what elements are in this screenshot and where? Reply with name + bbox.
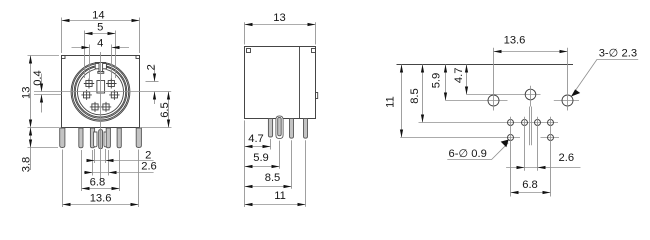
dim 2 right arrows [153,74,156,82]
board reference line [397,64,574,66]
side body bump [316,93,318,99]
pin P5 cross [84,79,94,89]
lower pin row line [400,137,559,139]
middle row reference line [34,94,62,96]
vertical center line [100,52,102,179]
dim 6.5 line [168,92,170,128]
dim 5 line [85,33,116,35]
dim 5.9 line [245,166,280,168]
shield leg right [136,128,141,148]
svg-text:8.5: 8.5 [265,172,281,184]
shield ring 2 [72,64,128,120]
dim 11 line [245,204,306,206]
mounting hole right axis [567,48,569,111]
svg-text:5: 5 [97,21,103,33]
shield ring 4 [75,67,125,117]
mounting hole middle axis [530,86,532,107]
dim 3.8 arrows [29,128,32,136]
svg-text:6.8: 6.8 [522,179,538,191]
dim 4 arrows [82,46,90,49]
dim 11 arrows [245,203,253,206]
dim 13 line [30,56,32,128]
pin hole c2 [522,120,528,126]
dim 6.8 arrows [82,187,90,190]
dim 6.8 pcb arrows [511,191,519,194]
key notch channel [99,69,103,72]
shield ring 5 [78,69,124,115]
svg-text:13: 13 [20,86,32,98]
svg-text:14: 14 [92,10,104,22]
pin P3 square [84,92,90,98]
middle hole center line [467,94,541,96]
dim 13 side arrows [245,23,253,26]
shield ring 1 [71,62,130,121]
pin hole c6 [548,135,554,141]
dim 4 line with tails [72,47,130,49]
mounting hole left [488,95,499,106]
dim 13 side line [245,24,316,26]
dim 11 pcb arrows [400,65,403,73]
pin hole c4 [548,120,554,126]
svg-text:3.8: 3.8 [20,157,32,173]
label 3-diam 2.3 arrow [571,89,580,96]
dim 8.5 pcb arrows [421,65,424,73]
svg-text:13: 13 [273,12,285,24]
dim 0.4 arrows [40,84,43,92]
dim 8.5 arrows [245,185,253,188]
side body corner tab left [247,49,251,53]
pin leg e [106,128,110,148]
svg-text:4.7: 4.7 [453,68,465,84]
dim 8.5 line [245,186,292,188]
svg-text:11: 11 [274,190,286,202]
pin P5 square [86,81,92,87]
dim 2 right line [154,66,156,104]
mounting hole left axis [493,48,495,111]
center key slot [97,81,105,94]
pin P1 cross [90,102,100,112]
pin P6 square [108,81,114,87]
pin leg c white [94,132,97,147]
side view body [245,47,316,119]
shield ring 3 [74,66,127,119]
bottom extension lines [63,149,139,207]
svg-text:2.6: 2.6 [559,152,575,164]
pin leg f [117,128,121,148]
svg-text:3-∅ 2.3: 3-∅ 2.3 [599,48,637,60]
dim 4.7 pcb arrows [465,65,468,73]
pin P6 cross [106,79,116,89]
side leg row4 [304,119,308,139]
dim 4.7 line [245,146,271,148]
side holes center line [446,100,580,102]
pin leg d white [104,132,107,147]
horizontal center line [34,91,171,93]
body corner tab left [62,56,66,59]
key notch bottom bar [98,72,104,74]
dim 14 line [62,20,140,22]
svg-text:13.6: 13.6 [90,193,112,205]
pin P2 square [103,104,109,110]
svg-text:2.6: 2.6 [141,160,157,172]
dim 14 arrows [62,19,70,22]
svg-text:13.6: 13.6 [504,34,526,46]
dim 4 extension lines [90,45,112,79]
dim 13.6 pcb line [494,51,568,53]
label 3-diam 2.3 leader [572,60,639,97]
pin leg a [79,128,83,148]
key notch bridge line [95,62,106,64]
dim 14 extension lines [62,18,140,54]
dim 13.6 arrows [63,203,71,206]
dim 4.7 arrows [245,145,253,148]
dim 2 bottom line [87,160,154,162]
dim 0.4 line [41,74,43,113]
svg-text:4.7: 4.7 [248,133,264,145]
center post leg [99,130,103,149]
dim 2.6 pcb arrows [517,166,525,169]
dim 6.8 line [82,188,120,190]
dim 5.9 pcb arrows [444,65,447,73]
dim 3.8 extension line [28,147,59,149]
pin hole vertical axes [511,117,551,197]
dim 5.9 arrows [245,165,253,168]
key notch blank [95,63,107,70]
svg-text:6-∅ 0.9: 6-∅ 0.9 [449,148,487,160]
dim 5 extension lines [85,31,116,79]
svg-text:6.8: 6.8 [90,177,106,189]
svg-text:0.4: 0.4 [32,70,44,86]
mounting hole right [562,95,573,106]
pin leg b [90,128,94,148]
dim 2.6 line [84,172,154,174]
side leg row3 [290,119,294,139]
dim 11 pcb line [401,65,403,138]
svg-text:5.9: 5.9 [431,73,443,89]
key notch right tab [103,64,107,69]
svg-text:2: 2 [146,64,158,70]
label 6-diam 0.9 arrow [501,140,509,148]
dim 8.5 pcb line [422,65,424,123]
side leg shield pin [278,117,282,135]
dim 13 side extension lines [245,22,316,44]
dim 2.6 pcb line [506,167,580,169]
pin P4 square [111,92,117,98]
dim 4.7 pcb line [466,65,468,95]
svg-text:4: 4 [97,37,103,49]
pin hole c3 [535,120,541,126]
pin P2 cross [101,102,111,112]
pin hole c1 [508,120,514,126]
key notch left tab [95,64,99,69]
pin hole c5 [508,135,514,141]
svg-text:5.9: 5.9 [253,152,269,164]
dim 6.8 pcb line [511,192,551,194]
key notch channel blank [99,69,103,73]
label 6-diam 0.9 leader [447,143,508,160]
mounting hole middle [525,89,536,100]
pin P4 cross [109,90,119,100]
side leg shield outline [276,116,283,139]
pin P1 square [92,104,98,110]
dim 3.8 line [30,126,32,170]
dim 2 bottom arrows [87,159,95,162]
side body flange line [299,47,301,119]
dim 6.5 arrows [167,92,170,100]
dim 5 arrows [85,32,93,35]
side leg row1 [268,119,272,138]
side body corner tab right [312,49,316,53]
dim 13.6 line [63,204,139,206]
dim 2.6 arrows [85,171,93,174]
svg-text:8.5: 8.5 [409,88,421,104]
dim 13 extension lines [28,56,60,128]
side bottom extension lines [245,120,306,207]
dim 6.5 extension line [141,127,172,129]
pin P3 cross [81,90,91,100]
dim 13 arrows [29,56,32,64]
shield leg left [60,128,65,148]
front view body square [62,56,140,128]
svg-text:11: 11 [385,96,397,108]
dim 13.6 pcb arrows [494,50,502,53]
dim 2 right tick [146,81,159,83]
body corner tab right [136,56,140,59]
upper pin row line [419,122,559,124]
key slot projection lines [530,107,532,146]
dim 5.9 pcb line [445,65,447,101]
svg-text:6.5: 6.5 [159,102,171,118]
